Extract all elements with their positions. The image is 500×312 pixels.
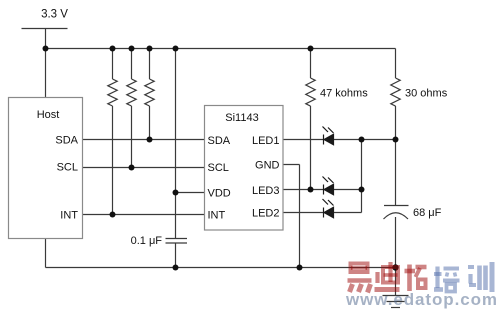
svg-text:INT: INT bbox=[60, 210, 78, 222]
svg-text:68 μF: 68 μF bbox=[413, 207, 442, 219]
svg-text:LED1: LED1 bbox=[252, 135, 280, 147]
svg-text:LED3: LED3 bbox=[252, 185, 280, 197]
svg-text:SCL: SCL bbox=[57, 162, 78, 174]
svg-text:3.3 V: 3.3 V bbox=[41, 9, 68, 21]
svg-text:INT: INT bbox=[208, 210, 226, 222]
svg-text:SDA: SDA bbox=[208, 135, 231, 147]
svg-text:VDD: VDD bbox=[208, 188, 231, 200]
svg-text:Si1143: Si1143 bbox=[225, 112, 258, 124]
svg-text:SDA: SDA bbox=[55, 135, 78, 147]
svg-text:www.edatop.com: www.edatop.com bbox=[345, 290, 497, 309]
svg-text:Host: Host bbox=[37, 109, 60, 121]
svg-text:GND: GND bbox=[255, 160, 280, 172]
svg-text:0.1 μF: 0.1 μF bbox=[131, 235, 163, 247]
svg-text:30 ohms: 30 ohms bbox=[405, 88, 448, 100]
svg-text:LED2: LED2 bbox=[252, 208, 280, 220]
svg-text:47 kohms: 47 kohms bbox=[320, 88, 368, 100]
svg-text:SCL: SCL bbox=[208, 162, 229, 174]
